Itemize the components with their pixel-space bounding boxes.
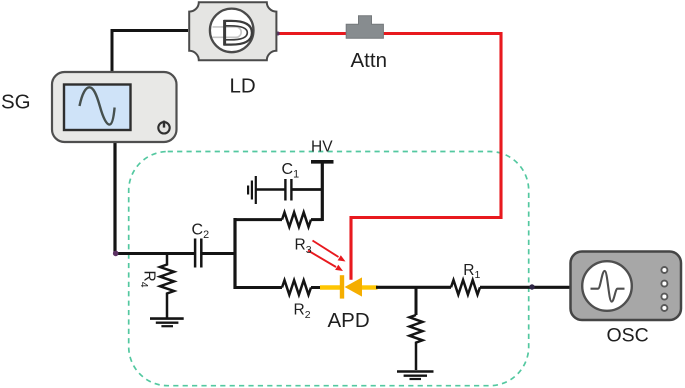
light arrow 2 (R3 illumination) — [308, 251, 336, 268]
wire APD to R1 — [376, 286, 451, 289]
laser diode LD package — [189, 2, 276, 60]
capacitor C2 — [195, 239, 201, 268]
svg-text:Attn: Attn — [351, 49, 387, 72]
OSC knob dot 4 — [661, 305, 667, 311]
LD diode D inner — [225, 26, 248, 40]
svg-text:R2: R2 — [294, 302, 311, 321]
svg-text:HV: HV — [311, 138, 333, 155]
signal generator SG box — [52, 72, 177, 142]
wire branch to R2 — [235, 286, 282, 289]
resistor R4 — [160, 254, 174, 319]
wire C1 to HV line — [292, 188, 324, 191]
resistor R3 (bias resistor) — [282, 212, 311, 227]
OSC knob dot 1 — [661, 267, 667, 273]
wire ground to C1 — [256, 188, 285, 191]
wire node A to C2 — [114, 252, 195, 255]
OSC knob dot 2 — [661, 281, 667, 287]
OSC knob dot 3 — [661, 294, 667, 300]
LD barrel (light bullet) — [213, 27, 242, 37]
LD diode D stem — [223, 20, 226, 46]
svg-text:OSC: OSC — [607, 325, 649, 347]
load resistor (vertical, unlabeled) — [410, 315, 423, 370]
ground (below load resistor) — [397, 370, 434, 373]
attenuator Attn block — [346, 16, 383, 39]
OSC screen circle — [582, 261, 632, 311]
wire branch to R3 resistor — [235, 218, 282, 221]
svg-text:R4: R4 — [138, 271, 157, 288]
resistor R2 — [282, 280, 311, 295]
svg-text:LD: LD — [230, 74, 256, 97]
resistor R1 — [451, 280, 480, 295]
oscilloscope OSC box — [571, 252, 682, 321]
wire R3 to HV line — [311, 218, 322, 221]
dashed enclosure box — [129, 152, 529, 386]
node B junction dot (OSC wire) — [529, 284, 534, 289]
svg-text:R1: R1 — [463, 262, 480, 281]
svg-text:C2: C2 — [192, 222, 210, 241]
APD cathode yellow wire — [362, 285, 378, 289]
light arrow 1 (R3 illumination) — [313, 241, 339, 258]
LD lens circle — [210, 9, 254, 53]
red wire LD to Attn to corner and down to APD — [277, 34, 501, 280]
ground (left of C1, rotated) — [255, 176, 257, 204]
APD diode triangle — [345, 277, 362, 296]
wire SG top to LD — [112, 31, 188, 73]
node LD output dot — [276, 32, 280, 36]
ground (below R4) — [150, 317, 184, 320]
svg-text:C1: C1 — [282, 161, 300, 180]
OSC pulse waveform — [591, 271, 625, 302]
APD anode yellow wire — [320, 285, 341, 289]
SG knob — [158, 122, 169, 133]
HV terminal bar — [311, 160, 334, 164]
APD cathode bar — [340, 275, 344, 298]
wire junction down to load resistor — [415, 287, 418, 315]
wire R2 to APD — [311, 286, 321, 289]
svg-text:APD: APD — [328, 309, 370, 332]
node A junction dot — [113, 251, 119, 257]
wire HV vertical line — [321, 162, 324, 222]
SG sine waveform — [80, 87, 115, 124]
wire SG bottom to node A — [113, 141, 116, 254]
svg-text:R3: R3 — [295, 237, 312, 256]
wire vertical branch line — [233, 218, 236, 289]
capacitor C1 — [285, 179, 291, 201]
SG screen — [64, 85, 131, 131]
svg-text:SG: SG — [1, 90, 31, 113]
wire R1 to OSC — [480, 286, 570, 289]
LD diode D outer — [225, 21, 252, 45]
wire C2 to branch point — [202, 252, 237, 255]
